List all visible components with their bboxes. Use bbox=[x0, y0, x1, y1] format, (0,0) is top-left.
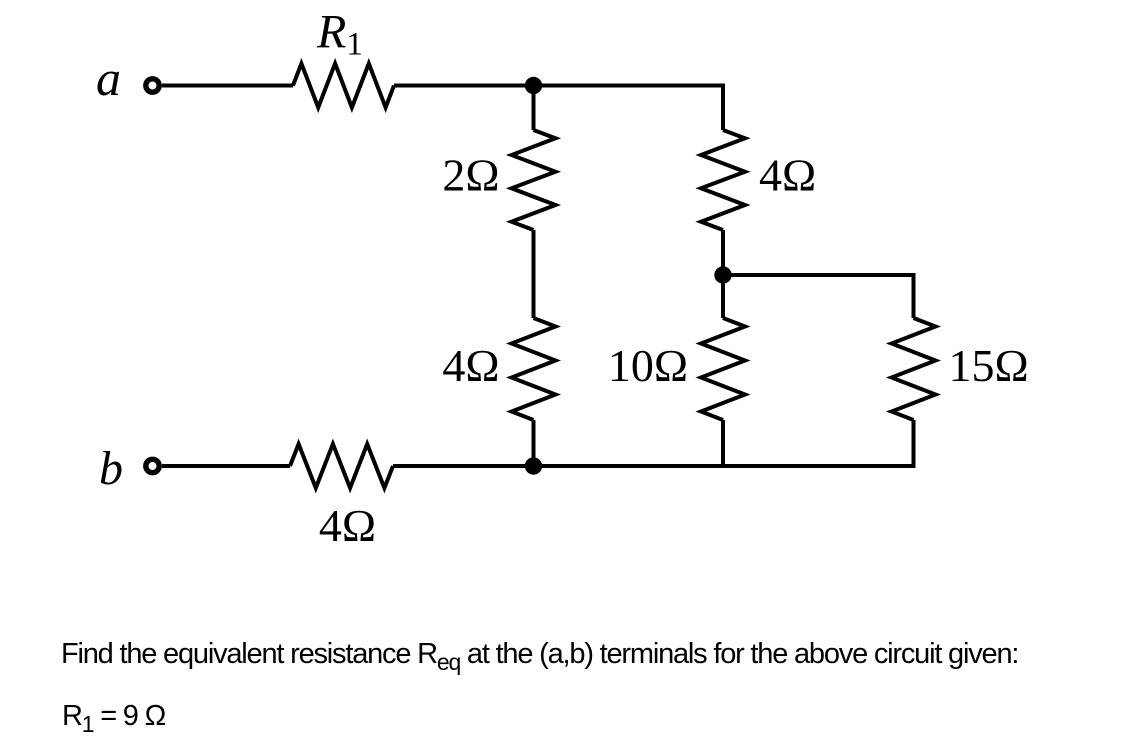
wire: 15ohm bottom to bottom rail corner bbox=[534, 420, 914, 466]
resistor 4ohm (top right column) bbox=[701, 130, 745, 230]
resistor 10ohm bbox=[701, 318, 745, 420]
wire: left column top from top rail bbox=[532, 86, 536, 131]
node C (bottom junction dot) bbox=[525, 457, 542, 474]
terminal b (open circle) bbox=[146, 459, 159, 472]
node B (middle junction dot) bbox=[714, 266, 731, 283]
wire: top rail from R1 to right column corner bbox=[394, 86, 723, 131]
svg-text:R1: R1 bbox=[316, 6, 363, 63]
resistor R1 bbox=[293, 64, 394, 108]
wire: left column between 2ohm and 4ohm bbox=[532, 230, 536, 318]
resistor 2ohm bbox=[512, 130, 556, 230]
svg-text:15Ω: 15Ω bbox=[949, 340, 1029, 391]
svg-text:4Ω: 4Ω bbox=[442, 340, 499, 391]
svg-text:b: b bbox=[99, 442, 123, 495]
resistor 4ohm (bottom, at terminal b) bbox=[290, 444, 393, 488]
wire: terminal a to top rail, through R1, corner down right column to node bbox=[162, 84, 293, 88]
svg-text:10Ω: 10Ω bbox=[608, 340, 688, 391]
svg-text:4Ω: 4Ω bbox=[319, 500, 376, 551]
wire: left column bottom to bottom rail bbox=[532, 420, 536, 466]
question text line 2: R1 = 9 ohm bbox=[62, 700, 165, 733]
question text line 1 bbox=[61, 638, 1018, 671]
wire: node down to 10ohm bbox=[721, 275, 725, 318]
wire: node to 15ohm branch (right) and down bbox=[723, 275, 914, 318]
svg-text:2Ω: 2Ω bbox=[442, 150, 499, 201]
svg-text:a: a bbox=[96, 50, 121, 106]
wire: terminal b to bottom 4ohm resistor bbox=[162, 464, 290, 468]
wire: 10ohm bottom to bottom rail bbox=[721, 420, 725, 466]
node A (top junction dot) bbox=[525, 77, 542, 94]
terminal a (open circle) bbox=[146, 79, 159, 92]
resistor 4ohm (left column lower) bbox=[512, 318, 556, 420]
svg-text:4Ω: 4Ω bbox=[759, 150, 816, 201]
wire: 4ohm bottom to node bbox=[721, 230, 725, 275]
wire: bottom rail from 4ohm to junction bbox=[393, 464, 540, 468]
resistor 15ohm bbox=[892, 318, 936, 420]
